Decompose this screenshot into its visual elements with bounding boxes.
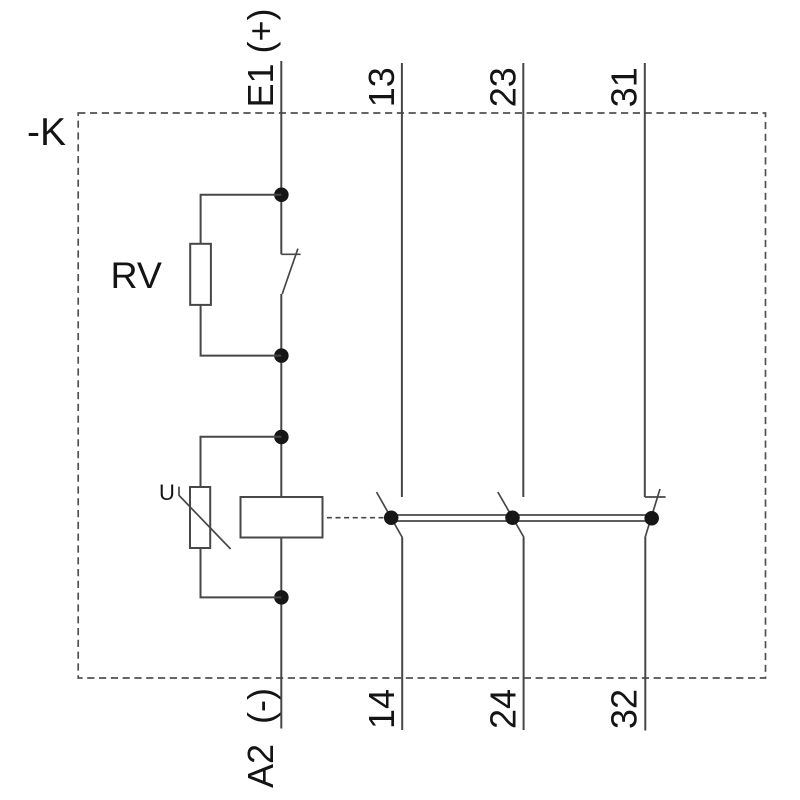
- node: junction dot (varistor branch top): [274, 430, 289, 445]
- node: junction dot (RV branch bottom): [274, 348, 289, 363]
- actuation link (dashed) from coil to contacts: [327, 517, 384, 519]
- svg-text:13: 13: [361, 67, 402, 107]
- svg-text:U: U: [159, 480, 175, 505]
- wire: coil line lower segment (A2): [280, 538, 282, 729]
- varistor U body: [190, 487, 210, 548]
- node: linkage dot contact 13-14: [384, 510, 399, 525]
- wire: contact 13 upper terminal: [401, 63, 403, 497]
- node: junction dot (varistor branch bottom): [274, 590, 289, 605]
- relay -K boundary (dashed enclosure): [78, 113, 765, 678]
- wire: contact 31 upper terminal: [644, 63, 646, 497]
- wire: contact 32 lower terminal: [644, 536, 646, 730]
- contact: NC element in coil path, fixed-stop bar: [281, 253, 300, 255]
- wire: RV branch top: [201, 195, 282, 244]
- svg-text:E1 (+): E1 (+): [240, 8, 281, 107]
- wire: varistor branch bottom: [201, 548, 282, 597]
- resistor RV body: [190, 244, 211, 305]
- contact 13-14 moving blade (NO): [377, 492, 403, 538]
- svg-text:31: 31: [604, 67, 645, 107]
- svg-text:A2 (-): A2 (-): [240, 688, 281, 788]
- wire: coil line middle segment: [280, 294, 282, 497]
- wire: contact 23 upper terminal: [522, 63, 524, 497]
- node: linkage dot contact 31-32: [644, 511, 659, 526]
- mechanical linkage lower line: [391, 520, 652, 522]
- wire: varistor branch top: [201, 437, 282, 487]
- svg-text:14: 14: [361, 689, 402, 729]
- svg-text:-K: -K: [27, 111, 66, 154]
- contact 31-32 moving blade (NC): [645, 489, 660, 536]
- wire: RV branch bottom: [201, 305, 282, 356]
- contact 31-32 fixed-stop bar (NC): [645, 496, 666, 498]
- relay coil K body: [241, 497, 323, 538]
- svg-text:24: 24: [482, 689, 523, 729]
- contact: NC element in coil path, moving blade: [282, 249, 298, 294]
- node: linkage dot contact 23-24: [505, 510, 520, 525]
- wire: contact 14 lower terminal: [401, 538, 403, 731]
- varistor U-tick: [178, 487, 180, 496]
- svg-text:23: 23: [482, 67, 523, 107]
- varistor diagonal stroke: [179, 495, 231, 549]
- mechanical linkage upper line: [391, 514, 652, 516]
- wire: coil line E1 upper segment: [280, 61, 282, 254]
- svg-text:RV: RV: [111, 254, 162, 296]
- svg-text:32: 32: [604, 689, 645, 729]
- contact 23-24 moving blade (NO): [498, 492, 524, 538]
- wire: contact 24 lower terminal: [523, 538, 525, 731]
- node: junction dot top (RV branch top): [274, 187, 289, 202]
